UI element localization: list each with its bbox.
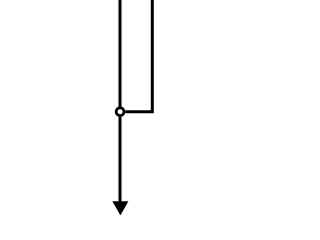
wire right vertical with elbow to node [125,0,152,112]
wire left vertical [119,0,122,107]
arrowhead down [112,201,128,215]
wire lower vertical [119,117,122,204]
node open circle junction [116,108,124,116]
